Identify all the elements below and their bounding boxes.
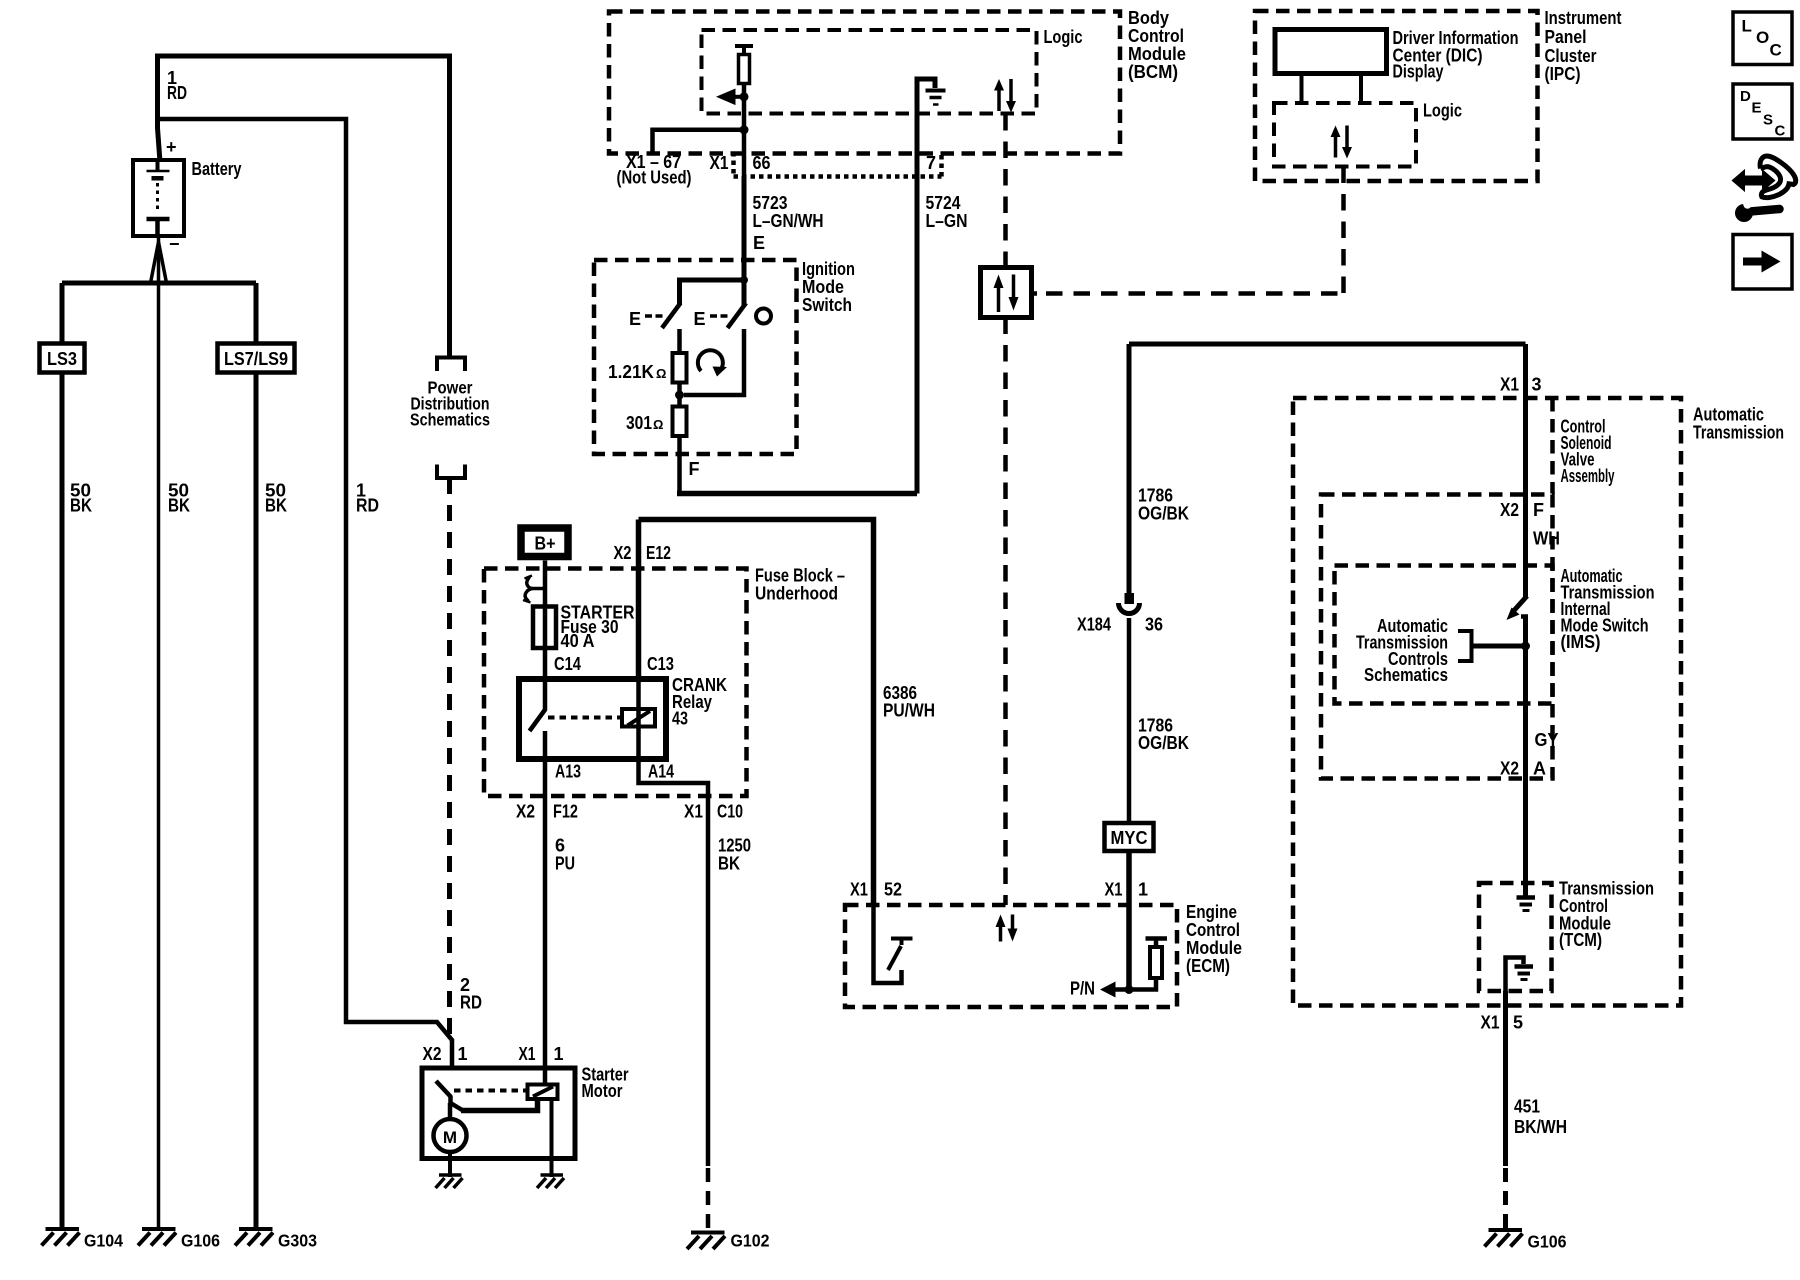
svg-text:X1: X1: [710, 153, 729, 173]
svg-text:Automatic: Automatic: [1693, 405, 1764, 425]
in-line connector X184 pin 36: [1125, 593, 1135, 604]
svg-text:Mode: Mode: [802, 277, 844, 297]
svg-text:Instrument: Instrument: [1545, 8, 1622, 28]
svg-text:7: 7: [926, 153, 936, 173]
svg-text:RD: RD: [167, 83, 187, 103]
battery B1 box: [133, 160, 184, 236]
automatic transmission controls schematics bracket: [1458, 631, 1472, 661]
svg-text:X184: X184: [1077, 615, 1111, 635]
relay switch blade: [543, 679, 548, 710]
svg-text:Transmission: Transmission: [1693, 423, 1784, 443]
serial data dashed line data box down to ECM: [1003, 318, 1008, 906]
svg-text:(Not Used): (Not Used): [617, 168, 692, 188]
fuse block underhood box: [484, 569, 747, 797]
resistor 1.21K: [673, 353, 687, 383]
wire 2 RD dashed to starter: [447, 478, 452, 1040]
svg-text:L–GN: L–GN: [926, 211, 968, 231]
svg-text:RD: RD: [460, 993, 482, 1013]
automatic transmission internal mode switch IMS box: [1335, 566, 1553, 704]
junction P/N node: [1125, 985, 1134, 994]
svg-text:5724: 5724: [926, 193, 961, 213]
wire switch pole 2 loop to resistor junction: [684, 329, 744, 395]
svg-text:Module: Module: [1186, 938, 1242, 958]
wire switch pole 1 to resistor: [677, 329, 682, 353]
svg-text:Assembly: Assembly: [1561, 466, 1615, 486]
starter motor M: [434, 1119, 467, 1152]
svg-text:X2: X2: [614, 543, 632, 563]
svg-text:X1: X1: [519, 1044, 536, 1064]
svg-text:1250: 1250: [718, 836, 751, 856]
svg-text:1: 1: [1138, 880, 1148, 900]
IPC logic box: [1274, 103, 1416, 167]
pull-up supply bar in BCM: [735, 44, 753, 48]
svg-text:X1: X1: [1481, 1013, 1500, 1033]
wire X1-3 main into IMS: [1523, 344, 1528, 597]
serial data dashed line data box to IPC: [1032, 291, 1038, 296]
ground G102: [687, 1233, 725, 1250]
body control module BCM box: [609, 12, 1120, 154]
svg-text:E: E: [753, 233, 765, 253]
wire 1250 BK to G102: [706, 796, 711, 1166]
svg-text:BK: BK: [265, 496, 287, 516]
svg-text:GY: GY: [1535, 730, 1559, 750]
switch position O indicator: [756, 309, 771, 324]
starter solenoid coil box: [528, 1085, 558, 1100]
crank relay 43 box: [519, 679, 666, 759]
ground symbol inside BCM: [917, 79, 935, 170]
svg-text:B+: B+: [535, 534, 556, 554]
wire 5724 L-GN: [915, 170, 920, 494]
svg-text:BK/WH: BK/WH: [1514, 1117, 1567, 1137]
svg-text:G303: G303: [278, 1231, 317, 1251]
svg-text:Fuse Block –: Fuse Block –: [755, 566, 845, 586]
svg-text:MYC: MYC: [1111, 828, 1148, 848]
svg-text:L–GN/WH: L–GN/WH: [753, 211, 824, 231]
svg-text:Motor: Motor: [582, 1081, 623, 1101]
svg-text:M: M: [443, 1128, 457, 1147]
wire 451 BK/WH to G106: [1503, 991, 1508, 1166]
svg-text:1: 1: [554, 1044, 564, 1064]
ground G106 (left): [138, 1229, 176, 1246]
svg-text:C: C: [1770, 41, 1782, 60]
svg-text:−: −: [169, 234, 180, 254]
svg-text:E: E: [1752, 100, 1762, 117]
svg-text:C13: C13: [647, 654, 674, 674]
P/N signal arrow: [1113, 987, 1129, 992]
wire X2-E12 feed to crank relay coil: [636, 520, 642, 680]
wire B+ into fuse block: [543, 561, 548, 607]
svg-text:LS7/LS9: LS7/LS9: [224, 349, 288, 369]
splice MYC: [1105, 823, 1154, 851]
junction at X1-67 branch: [740, 125, 749, 134]
svg-text:F12: F12: [553, 802, 578, 822]
svg-text:52: 52: [884, 880, 902, 900]
svg-text:E: E: [629, 309, 641, 329]
resistor in BCM logic: [742, 46, 746, 55]
wire battery positive to starter (1 RD second run): [160, 119, 452, 1068]
svg-text:X1: X1: [850, 880, 868, 900]
svg-text:66: 66: [753, 153, 771, 173]
wire F loop to BCM pin 7: [677, 491, 917, 497]
svg-text:40 A: 40 A: [561, 631, 595, 651]
fuse STARTER Fuse 30 40 A: [533, 607, 556, 649]
serial data dashed line IPC down: [1341, 167, 1346, 294]
svg-text:BK: BK: [718, 854, 740, 874]
engine control module ECM box: [845, 905, 1177, 1007]
svg-text:G102: G102: [731, 1231, 770, 1251]
svg-text:X2: X2: [1500, 759, 1519, 779]
svg-text:O: O: [1756, 28, 1769, 47]
ground G104: [42, 1229, 80, 1246]
svg-text:1: 1: [458, 1044, 468, 1064]
junction IMS sense: [1521, 642, 1530, 651]
svg-text:S: S: [1763, 112, 1773, 129]
svg-text:451: 451: [1514, 1097, 1540, 1117]
svg-text:1.21K: 1.21K: [608, 362, 654, 382]
svg-text:Control: Control: [1186, 920, 1240, 940]
svg-text:Ω: Ω: [653, 417, 663, 432]
wire 6 PU relay A13 to starter: [543, 759, 548, 1085]
legend icon forward arrow box: [1733, 235, 1792, 290]
svg-text:PU/WH: PU/WH: [883, 701, 935, 721]
off-page connector bracket (bottom) from Power Distribution: [437, 465, 465, 479]
svg-text:(TCM): (TCM): [1559, 930, 1602, 950]
legend icon DESC box: [1733, 84, 1792, 139]
ignition mode switch box: [594, 260, 797, 454]
svg-text:C10: C10: [717, 802, 743, 822]
svg-text:F: F: [1533, 500, 1544, 520]
junction at resistor/arrow: [740, 92, 749, 101]
wire motor to case ground: [448, 1152, 452, 1177]
svg-text:D: D: [1740, 88, 1751, 105]
serial data communication box: [981, 268, 1032, 318]
svg-text:Battery: Battery: [192, 159, 242, 179]
wire relay coil to A14 / C10: [639, 679, 709, 796]
wire 1786 OG/BK upper: [1127, 344, 1132, 593]
svg-text:(IPC): (IPC): [1545, 64, 1581, 84]
driver information center DIC display: [1275, 30, 1387, 74]
svg-text:F: F: [689, 459, 700, 479]
svg-text:BK: BK: [168, 496, 190, 516]
svg-text:A13: A13: [555, 762, 581, 782]
resistor 301: [673, 407, 687, 437]
starter motor box: [422, 1068, 575, 1159]
svg-text:P/N: P/N: [1070, 979, 1095, 999]
battery B1 bottom plate: [147, 217, 170, 222]
wire between resistors: [677, 383, 682, 407]
svg-text:43: 43: [672, 709, 688, 729]
svg-text:Switch: Switch: [802, 295, 852, 315]
battery B1 negative post stub: [155, 221, 160, 236]
svg-text:C14: C14: [554, 654, 581, 674]
ground symbol (TCM return): [1515, 964, 1534, 969]
svg-text:Schematics: Schematics: [410, 410, 490, 430]
inner transmission box: [1321, 495, 1553, 779]
svg-text:C: C: [1775, 123, 1786, 140]
wire 1786 OG/BK lower: [1127, 618, 1132, 823]
svg-text:A: A: [1533, 759, 1546, 779]
svg-text:Ignition: Ignition: [802, 259, 855, 279]
svg-text:WH: WH: [1533, 529, 1560, 549]
svg-text:36: 36: [1145, 615, 1163, 635]
svg-text:X1: X1: [1500, 375, 1519, 395]
svg-text:3: 3: [1532, 375, 1542, 395]
svg-text:Logic: Logic: [1044, 27, 1083, 47]
junction at switch feed: [740, 276, 748, 284]
starter internal bus to solenoid coil: [461, 1099, 538, 1111]
signal arrow (left) in BCM logic: [716, 89, 736, 106]
ground G303: [235, 1229, 273, 1246]
transmission control module TCM box: [1479, 883, 1552, 991]
serial data arrows in IPC logic: [1334, 134, 1338, 158]
svg-text:G106: G106: [181, 1231, 220, 1251]
wire 50 BK center branch to G106: [157, 236, 161, 1228]
svg-text:E12: E12: [646, 543, 671, 563]
junction of resistors and pole-2 loop: [675, 391, 684, 400]
svg-text:Underhood: Underhood: [755, 584, 838, 604]
svg-text:G106: G106: [1528, 1232, 1567, 1252]
ground symbol (TCM signal): [1517, 895, 1536, 900]
svg-text:X1: X1: [1105, 880, 1123, 900]
svg-text:301: 301: [626, 413, 652, 433]
ground (starter motor): [436, 1175, 463, 1188]
svg-text:5: 5: [1513, 1013, 1523, 1033]
svg-text:1786: 1786: [1138, 486, 1173, 506]
wire 50 BK right branch to G303: [254, 283, 259, 1228]
svg-text:PU: PU: [555, 854, 575, 874]
starter solenoid dashed actuation link: [454, 1089, 528, 1093]
wire solenoid coil to case ground: [550, 1099, 554, 1177]
rotary action arrow: [698, 350, 723, 371]
control solenoid valve assembly partition: [1550, 398, 1555, 494]
battery negative cable arrow junction: [151, 242, 167, 283]
svg-text:X2: X2: [1500, 500, 1519, 520]
wire X1-3 from automatic transmission: [1129, 342, 1526, 347]
svg-text:Logic: Logic: [1423, 101, 1462, 121]
svg-text:OG/BK: OG/BK: [1138, 733, 1189, 753]
wire stub X1-67 not used: [653, 130, 745, 152]
svg-text:X2: X2: [423, 1044, 442, 1064]
svg-text:Cluster: Cluster: [1545, 46, 1597, 66]
relay coil (C13 to A14): [622, 709, 655, 727]
battery B1 top short plate: [152, 176, 164, 181]
wire battery positive to power distribution (1 RD top): [158, 56, 450, 357]
svg-text:OG/BK: OG/BK: [1138, 504, 1189, 524]
svg-text:(IMS): (IMS): [1561, 632, 1601, 652]
wire E into switch: [680, 280, 745, 305]
svg-text:Engine: Engine: [1186, 902, 1237, 922]
svg-text:Display: Display: [1393, 62, 1444, 82]
ground (starter solenoid): [537, 1175, 564, 1188]
wire F out of switch: [677, 436, 682, 494]
battery B1 internal dashed link: [156, 183, 159, 213]
starter solenoid contact blade: [436, 1081, 451, 1097]
serial data arrows inside ECM: [999, 925, 1003, 942]
svg-text:Schematics: Schematics: [1364, 665, 1448, 685]
relay actuation dashed link: [548, 716, 620, 720]
svg-text:Ω: Ω: [656, 366, 666, 381]
svg-text:E: E: [694, 309, 706, 329]
wire IMS lower: [1521, 614, 1528, 619]
svg-text:+: +: [166, 137, 177, 157]
wire 1786 into ECM P/N sense: [1126, 905, 1132, 990]
svg-text:A14: A14: [648, 762, 674, 782]
svg-text:RD: RD: [356, 496, 379, 516]
svg-text:X1: X1: [684, 802, 703, 822]
connector LS3: [40, 344, 85, 373]
svg-text:L: L: [1742, 17, 1752, 36]
crank request switch inside ECM: [874, 905, 902, 983]
power feed B+ box: [521, 528, 568, 557]
svg-text:Panel: Panel: [1545, 27, 1587, 47]
svg-text:(ECM): (ECM): [1186, 956, 1230, 976]
svg-text:G104: G104: [84, 1231, 123, 1251]
ground G106 (right): [1485, 1230, 1523, 1247]
TCM ground return hook: [1506, 958, 1524, 992]
legend icon data exchange (arrows and wrench): [1733, 171, 1774, 190]
serial data arrows in BCM logic: [997, 88, 1001, 111]
DIC display legs: [1302, 74, 1362, 104]
svg-text:Control: Control: [1128, 26, 1184, 46]
wire 5723 L-GN/WH: [742, 176, 747, 280]
svg-text:Module: Module: [1128, 44, 1186, 64]
off-page connector bracket (top) to Power Distribution: [437, 358, 465, 372]
svg-text:BK: BK: [70, 496, 92, 516]
wire E12 loop over to ECM branch: [639, 520, 874, 906]
wire battery negative bus: [62, 281, 256, 286]
instrument panel cluster IPC box: [1255, 11, 1538, 181]
connector X1 pin row (66 / 7) dashed outline: [734, 152, 942, 177]
svg-text:Body: Body: [1128, 8, 1169, 28]
serial data dashed line BCM to data box: [1003, 114, 1008, 267]
circuit breaker hook symbol: [525, 577, 545, 602]
legend icon LOC box: [1733, 12, 1792, 65]
automatic transmission box: [1293, 398, 1681, 1006]
svg-text:(BCM): (BCM): [1128, 62, 1178, 82]
BCM logic box: [702, 30, 1037, 114]
IMS switch blade: [1514, 596, 1527, 611]
wire MYC to ECM X1-1: [1126, 851, 1132, 905]
svg-text:5723: 5723: [753, 193, 788, 213]
connector LS7/LS9: [218, 344, 295, 373]
wire 50 BK left branch to G104: [60, 283, 65, 1228]
svg-text:X2: X2: [516, 802, 535, 822]
svg-text:6: 6: [555, 836, 565, 856]
svg-text:LS3: LS3: [47, 349, 77, 369]
pull-up bar and resistor inside ECM: [1146, 939, 1168, 948]
battery B1 top long plate: [156, 160, 160, 171]
